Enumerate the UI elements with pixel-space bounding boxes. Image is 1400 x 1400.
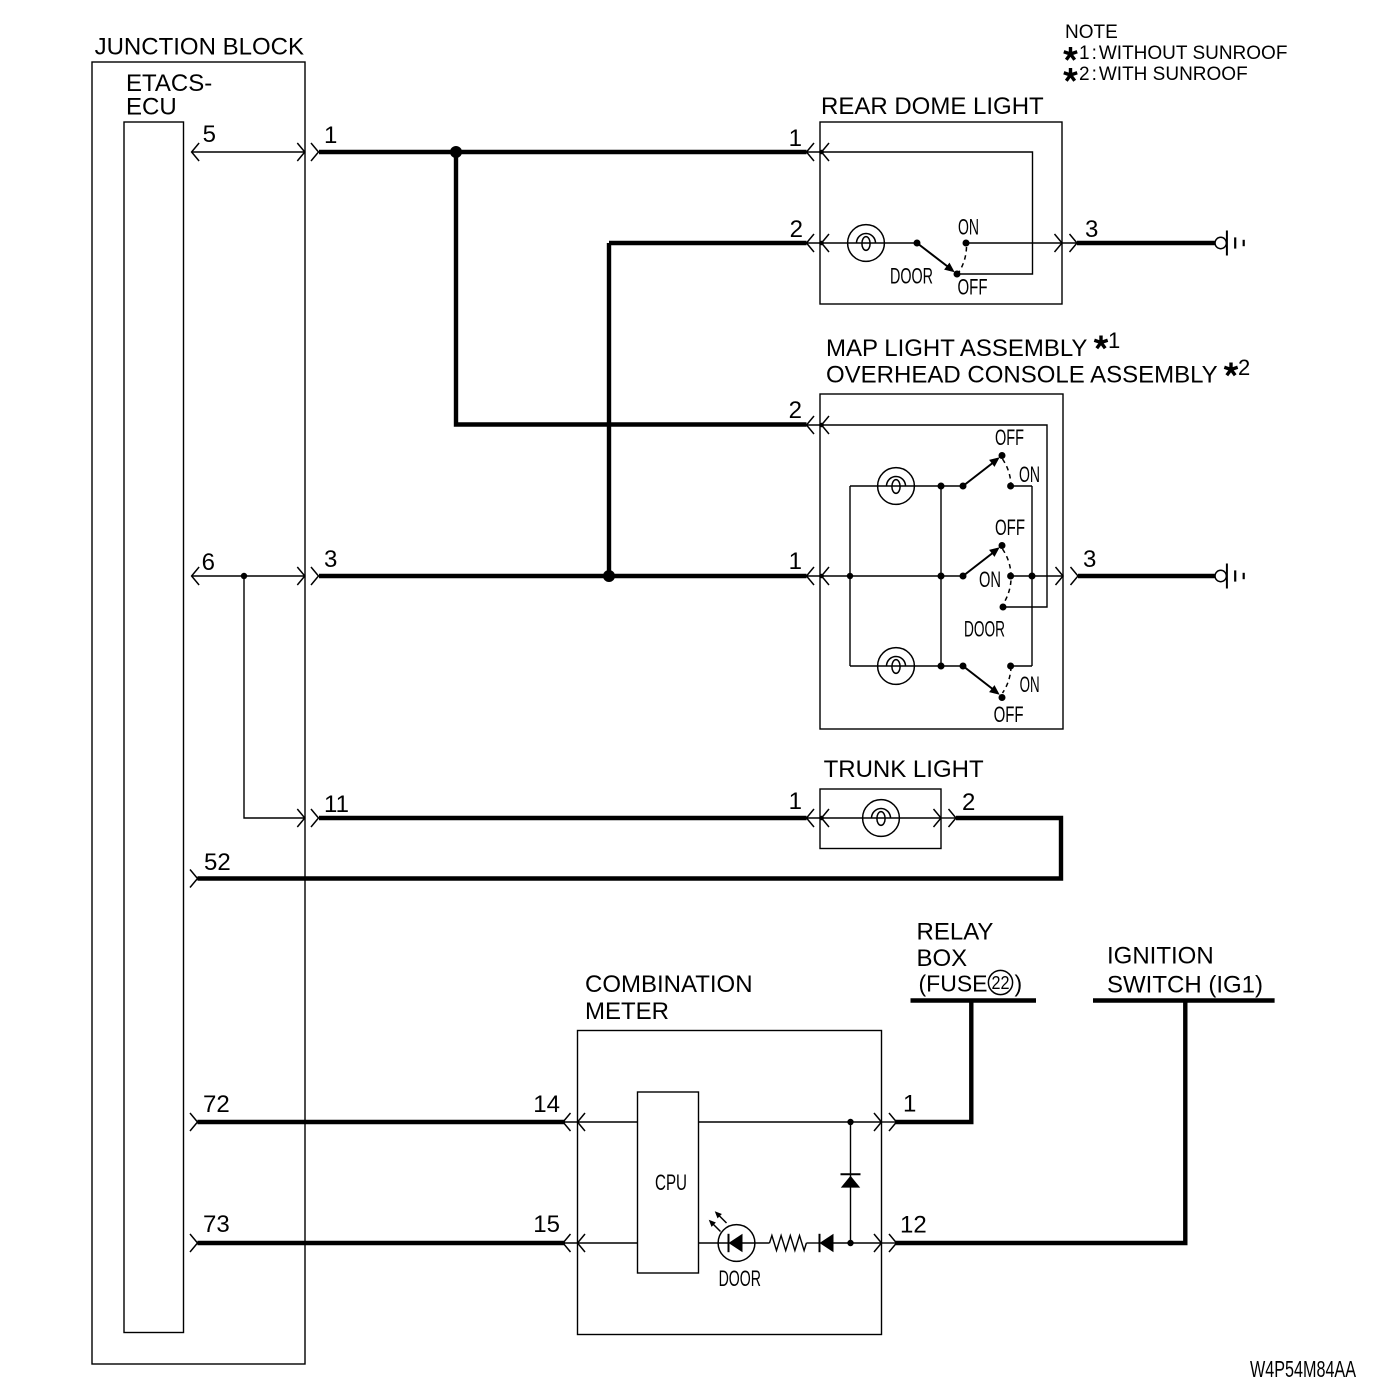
svg-text:OFF: OFF: [994, 702, 1024, 727]
svg-text:2: 2: [962, 789, 975, 816]
svg-text:JUNCTION BLOCK: JUNCTION BLOCK: [95, 34, 304, 61]
svg-text:ON: ON: [1019, 462, 1040, 487]
svg-text:11: 11: [324, 791, 349, 818]
svg-text:5: 5: [203, 121, 216, 148]
svg-text:1: 1: [789, 788, 802, 815]
svg-text:ON: ON: [958, 215, 979, 240]
svg-text:1:WITHOUT SUNROOF: 1:WITHOUT SUNROOF: [1079, 43, 1287, 64]
svg-text:SWITCH (IG1): SWITCH (IG1): [1107, 972, 1263, 999]
svg-text:2:WITH SUNROOF: 2:WITH SUNROOF: [1079, 64, 1248, 85]
svg-text:73: 73: [203, 1211, 230, 1238]
svg-text:MAP LIGHT ASSEMBLY: MAP LIGHT ASSEMBLY: [826, 335, 1087, 362]
svg-text:72: 72: [203, 1091, 230, 1118]
svg-text:): ): [1015, 971, 1023, 997]
svg-text:NOTE: NOTE: [1065, 22, 1118, 43]
svg-text:CPU: CPU: [655, 1170, 687, 1195]
svg-text:3: 3: [1085, 216, 1098, 243]
svg-text:2: 2: [1238, 355, 1250, 380]
svg-text:OFF: OFF: [995, 425, 1024, 450]
svg-text:1: 1: [789, 125, 802, 152]
svg-text:1: 1: [324, 122, 337, 149]
svg-text:REAR DOME LIGHT: REAR DOME LIGHT: [821, 93, 1044, 120]
svg-text:(FUSE: (FUSE: [919, 971, 988, 997]
svg-text:2: 2: [789, 397, 802, 424]
svg-text:ON: ON: [979, 567, 1001, 592]
svg-text:TRUNK LIGHT: TRUNK LIGHT: [824, 756, 984, 783]
svg-text:IGNITION: IGNITION: [1107, 942, 1214, 969]
svg-text:3: 3: [324, 546, 337, 573]
svg-text:METER: METER: [585, 998, 669, 1025]
svg-text:OVERHEAD CONSOLE ASSEMBLY: OVERHEAD CONSOLE ASSEMBLY: [826, 362, 1218, 389]
svg-text:12: 12: [900, 1211, 927, 1238]
svg-text:14: 14: [533, 1091, 560, 1118]
svg-text:DOOR: DOOR: [719, 1266, 761, 1291]
svg-text:1: 1: [789, 548, 802, 575]
svg-text:OFF: OFF: [958, 274, 988, 299]
svg-text:6: 6: [202, 549, 215, 576]
svg-text:2: 2: [790, 216, 803, 243]
svg-text:ECU: ECU: [126, 94, 177, 121]
svg-text:52: 52: [204, 849, 231, 876]
svg-text:W4P54M84AA: W4P54M84AA: [1250, 1356, 1356, 1382]
svg-text:RELAY: RELAY: [917, 919, 994, 946]
svg-text:ON: ON: [1020, 672, 1040, 697]
svg-text:BOX: BOX: [917, 945, 968, 972]
svg-text:DOOR: DOOR: [964, 617, 1005, 642]
svg-text:1: 1: [903, 1091, 916, 1118]
svg-text:COMBINATION: COMBINATION: [585, 971, 753, 998]
svg-text:OFF: OFF: [995, 515, 1025, 540]
svg-text:DOOR: DOOR: [890, 264, 933, 289]
svg-text:1: 1: [1108, 328, 1120, 353]
svg-text:15: 15: [533, 1211, 560, 1238]
svg-text:3: 3: [1083, 546, 1096, 573]
svg-text:22: 22: [992, 973, 1010, 993]
